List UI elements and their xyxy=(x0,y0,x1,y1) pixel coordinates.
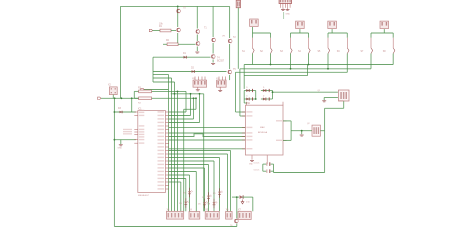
svg-text:MAX: MAX xyxy=(260,126,265,129)
svg-text:GND: GND xyxy=(286,14,291,16)
svg-text:MEGA16-P: MEGA16-P xyxy=(138,194,150,197)
svg-text:GND: GND xyxy=(118,148,123,150)
svg-text:JP1: JP1 xyxy=(222,36,225,38)
svg-text:C5 10n: C5 10n xyxy=(254,162,260,164)
svg-text:BC557: BC557 xyxy=(217,61,225,63)
svg-text:ATMEGA: ATMEGA xyxy=(258,131,268,134)
svg-text:C6 10n: C6 10n xyxy=(254,169,260,171)
svg-text:16MHz: 16MHz xyxy=(338,101,344,103)
